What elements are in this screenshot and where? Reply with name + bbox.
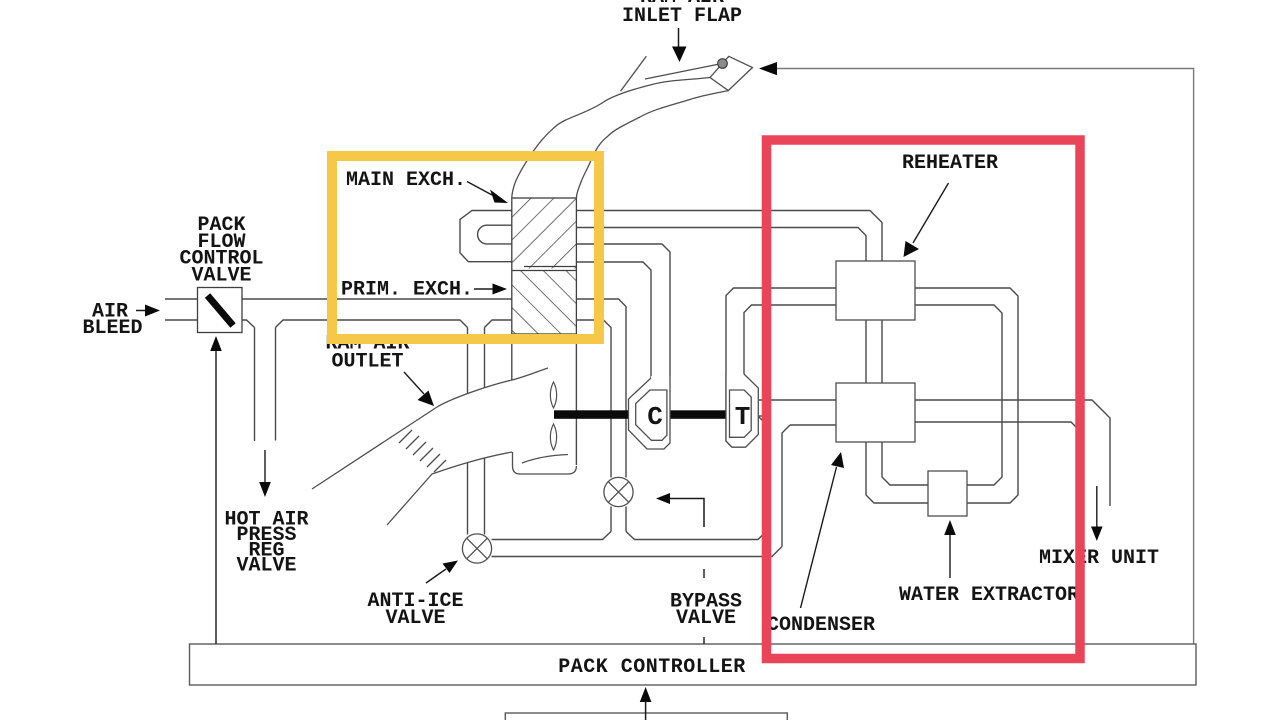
svg-text:WATER EXTRACTOR: WATER EXTRACTOR	[899, 584, 1079, 607]
pack flow control valve gate	[208, 296, 234, 326]
pipe: reheater to water extractor inner wall	[915, 305, 1002, 485]
svg-text:MIXER UNIT: MIXER UNIT	[1039, 547, 1159, 570]
anti-ice valve symbol	[462, 534, 491, 563]
heat exchanger block	[512, 198, 577, 334]
svg-text:T: T	[735, 402, 751, 432]
ram air inlet flap vane	[710, 56, 753, 90]
svg-text:MAIN EXCH.: MAIN EXCH.	[346, 169, 466, 192]
pipe: bypass line below valve	[611, 507, 626, 532]
compressor C body	[636, 390, 667, 440]
pipe: condenser to mixer unit top wall	[915, 400, 1110, 506]
wire: duct upper boundary	[312, 368, 548, 489]
arrow below inlet flap label	[672, 28, 687, 62]
wire: duct hatch ticks	[399, 430, 446, 472]
arrow from main exch label	[467, 182, 508, 204]
pipe: main exch to reheater inner wall	[576, 228, 866, 262]
reheater box U2	[836, 261, 915, 320]
pipe: reheater to condenser walls	[866, 320, 882, 383]
pipe: reheater to turbine inlet outer wall	[726, 288, 836, 447]
ram air outlet hand-drawn duct	[312, 366, 568, 525]
arrow to mixer unit	[1091, 486, 1103, 541]
compressor C shell	[629, 376, 671, 449]
svg-text:VALVE: VALVE	[676, 607, 736, 630]
svg-text:VALVE: VALVE	[191, 265, 251, 288]
arrow from ram air outlet label	[404, 372, 434, 406]
svg-text:CONDENSER: CONDENSER	[767, 614, 875, 637]
pipe: condenser to mixer unit bottom wall	[915, 422, 1080, 500]
highlight: red box around reheater condenser water extractor	[767, 140, 1081, 659]
highlight: yellow box around exchangers	[332, 156, 599, 339]
arrow from water extractor label	[944, 520, 956, 578]
svg-text:VALVE: VALVE	[385, 607, 445, 630]
pack controller box	[190, 644, 1197, 685]
bypass valve symbol	[604, 477, 633, 506]
arrow from condenser label	[801, 452, 845, 608]
arrow above hot air label	[259, 450, 271, 497]
pipe: pack outlet duct top wall	[492, 532, 766, 540]
wire: duct inner curve	[522, 455, 568, 464]
arrow from air bleed label	[136, 305, 160, 317]
pipe: bypass line from prim exch inner wall	[576, 320, 611, 478]
pipe: pack outlet duct bottom wall	[492, 547, 783, 557]
pipe: condenser to water extractor outer wall	[866, 442, 928, 503]
wire: control frame from flap to pack controller (right border)	[777, 69, 1194, 645]
turbine T body	[730, 390, 752, 437]
pipe: reheater to water extractor outer wall	[915, 288, 1018, 503]
ram air inlet crease line	[621, 56, 647, 91]
fan blade lower	[550, 424, 556, 450]
wire: ram air duct wall left below exchanger	[511, 344, 513, 380]
dashed control line to bypass valve	[703, 569, 705, 644]
ram air flap actuator rod	[645, 64, 722, 80]
condenser box U3	[836, 383, 915, 442]
pipe: turbine outlet to condenser top wall	[757, 399, 836, 401]
pipe: compressor discharge to main exch outer wall	[576, 244, 670, 376]
pipe: riser to turbine outlet walls	[758, 416, 790, 547]
arrow to bypass valve	[656, 493, 704, 527]
svg-text:OUTLET: OUTLET	[331, 351, 403, 374]
pack flow control valve box	[198, 288, 243, 333]
arrow from reheater label	[904, 183, 949, 257]
fan shaft middle segment	[667, 410, 730, 419]
svg-text:PRIM. EXCH.: PRIM. EXCH.	[341, 279, 473, 302]
pipe: compressor discharge to main exch inner wall	[576, 262, 651, 378]
fan blade upper	[550, 382, 556, 408]
arrow from prim exch label	[474, 284, 507, 295]
wire: ram air duct wall right below exchanger	[575, 344, 577, 465]
pipe: hot air press reg branch walls	[255, 328, 276, 442]
fan shroud	[513, 452, 577, 474]
pipe: merged line to condenser bottom wall	[790, 424, 836, 426]
ram air flap pivot	[718, 59, 728, 69]
exchanger divider lines	[512, 267, 577, 271]
svg-text:PACK CONTROLLER: PACK CONTROLLER	[558, 656, 746, 679]
pipe: reheater to turbine inlet inner wall	[744, 305, 836, 374]
water extractor box U4	[928, 471, 967, 516]
control line to pack flow control valve	[210, 336, 222, 644]
pipe: bypass line from prim exch outer wall	[576, 299, 626, 478]
arrow from anti-ice label	[426, 561, 458, 584]
arrow into pack controller	[640, 687, 652, 720]
pipe: bleed air supply bottom wall with branch bevels	[165, 320, 512, 328]
pipe: exchanger U-turn inner wall	[478, 225, 512, 244]
wire: duct lower boundary	[387, 452, 512, 525]
pipe: exchanger U-turn outer wall	[460, 211, 512, 262]
zone controller box (bottom)	[505, 713, 787, 720]
pipe: main exch to reheater outer wall	[576, 211, 882, 262]
pipe: bleed air supply top wall	[165, 298, 512, 300]
ram air inlet duct right wall	[576, 91, 729, 199]
pipe: anti-ice branch walls	[468, 328, 485, 535]
svg-text:VALVE: VALVE	[236, 555, 296, 578]
svg-text:C: C	[647, 402, 663, 432]
pipe: turbine outlet short bottom wall	[757, 415, 765, 417]
pipe: condenser to water extractor inner wall	[882, 442, 928, 485]
ram air inlet duct left wall	[512, 78, 710, 199]
turbine T shell	[726, 374, 758, 447]
svg-text:INLET FLAP: INLET FLAP	[622, 5, 742, 28]
fan shaft left segment	[554, 410, 636, 419]
svg-text:REHEATER: REHEATER	[902, 152, 998, 175]
arrow into ram air flap (from frame)	[759, 62, 777, 75]
svg-text:BLEED: BLEED	[82, 317, 142, 340]
